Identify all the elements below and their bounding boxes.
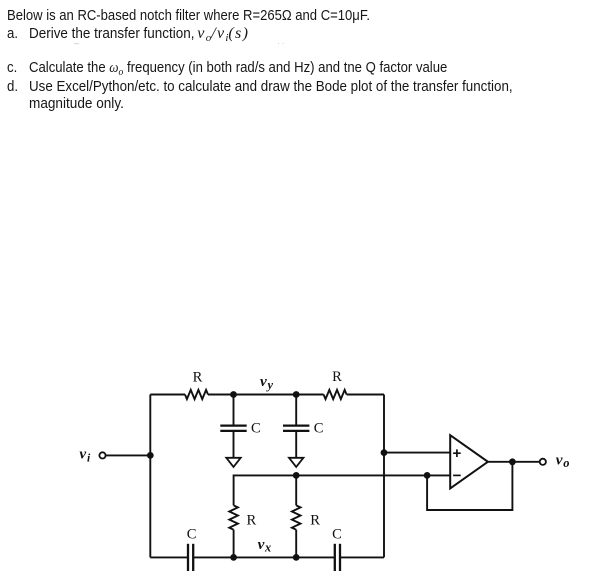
resistor R1 (top left, horizontal zigzag) xyxy=(185,390,208,399)
node dot at v_x right xyxy=(293,554,300,561)
svg-text:C: C xyxy=(187,527,197,543)
problem statement text xyxy=(7,8,370,23)
wire: lead to op-amp + input xyxy=(384,452,450,454)
svg-text:C: C xyxy=(332,527,342,543)
op-amp - sign xyxy=(453,474,461,476)
wire: R3 bottom lead xyxy=(233,530,235,558)
node: input junction dot xyxy=(147,452,154,459)
node dot at v_y left xyxy=(230,391,237,398)
wire: R4 bottom lead xyxy=(295,530,297,558)
wire: top rail right segment xyxy=(347,394,384,396)
wire: bottom rail right segment xyxy=(340,556,384,558)
capacitor C1 stem from v_y xyxy=(233,395,235,426)
terminal vi (open circle) xyxy=(99,452,105,458)
op-amp + sign xyxy=(453,449,461,457)
wire: R4 upper lead xyxy=(295,475,297,505)
svg-text:R: R xyxy=(310,513,320,529)
node dot at v_y right xyxy=(293,391,300,398)
svg-text:vy: vy xyxy=(260,373,273,392)
wire: feedback rail to inverting input xyxy=(234,475,451,505)
node dot on feedback rail at x=427 xyxy=(424,472,431,479)
wire: left rail vertical xyxy=(149,395,151,558)
capacitor C1 plates xyxy=(220,426,246,431)
capacitor C3 plates (vertical) xyxy=(188,544,193,571)
svg-text:vx: vx xyxy=(258,536,272,554)
svg-text:R: R xyxy=(247,513,257,529)
node dot on feedback rail at x=296 xyxy=(293,472,300,479)
node dot: output junction xyxy=(509,458,516,465)
capacitor C2 stem from v_y xyxy=(295,395,297,426)
wire: feedback loop from output to inverting rail xyxy=(427,462,512,510)
capacitor C2 plates xyxy=(283,426,309,431)
wire: output lead xyxy=(488,461,540,463)
svg-text:C: C xyxy=(251,420,261,436)
ground arrow under C2 xyxy=(289,458,303,467)
svg-text:vi: vi xyxy=(79,446,91,465)
terminal vo (open circle) xyxy=(540,459,546,465)
wire: top rail middle segment (node v_y) xyxy=(208,394,324,396)
capacitor C4 plates (vertical) xyxy=(335,544,340,571)
op-amp U1 triangle xyxy=(450,435,488,488)
svg-text:vo: vo xyxy=(556,452,570,471)
wire: bottom rail middle segment (node v_x) xyxy=(193,556,334,558)
wire: C1 lower stem xyxy=(233,431,235,458)
svg-text:R: R xyxy=(332,369,342,385)
node dot: noninverting tap on right rail xyxy=(381,449,388,456)
wire: bottom rail left segment xyxy=(150,556,188,558)
svg-text:R: R xyxy=(193,370,203,386)
resistor R4 (right vertical zigzag) xyxy=(292,505,301,529)
ground arrow under C1 xyxy=(226,458,240,467)
wire: right rail vertical xyxy=(383,395,385,558)
svg-text:C: C xyxy=(314,420,324,436)
node label v_i xyxy=(79,446,91,465)
node dot at v_x left xyxy=(230,554,237,561)
resistor R2 (top right, horizontal zigzag) xyxy=(324,390,347,399)
wire: input lead from vi terminal to left rail xyxy=(106,454,150,456)
wire: C2 lower stem xyxy=(295,431,297,458)
resistor R3 (left vertical zigzag) xyxy=(229,505,238,529)
wire: top rail left segment xyxy=(150,394,185,396)
